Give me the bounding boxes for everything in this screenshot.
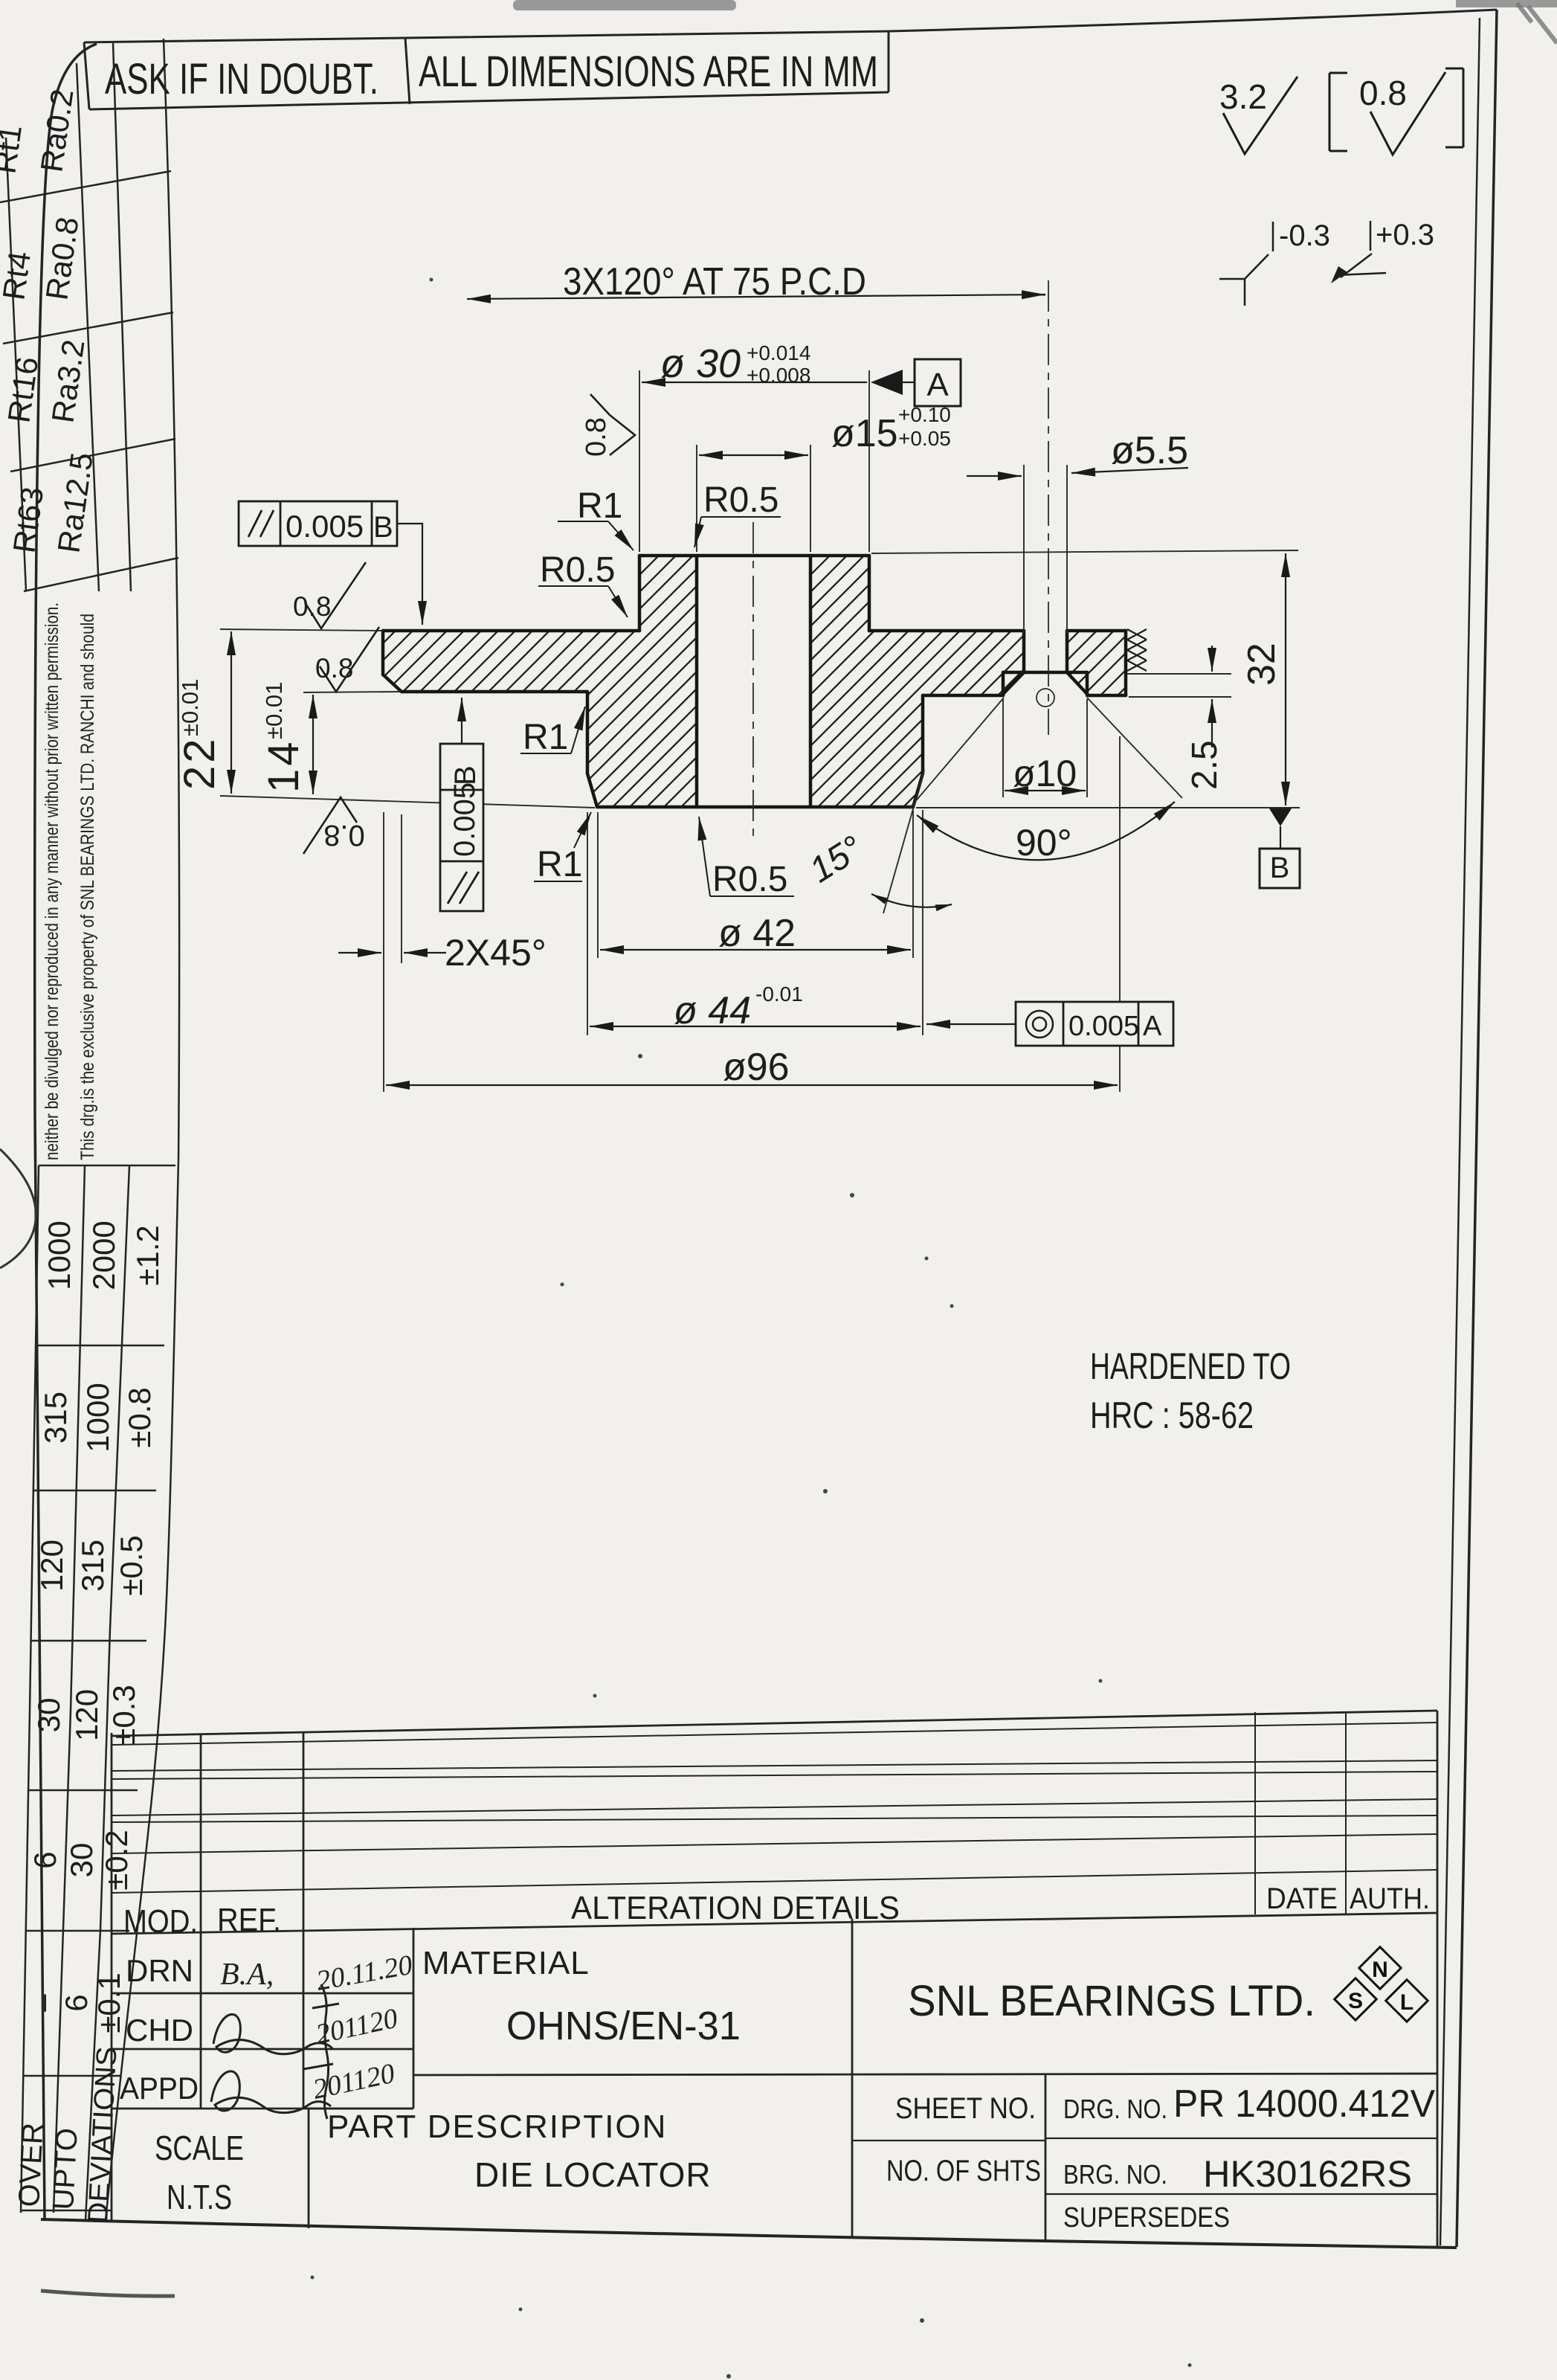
svg-text:B.A,: B.A, xyxy=(220,1958,274,1992)
svg-text:–: – xyxy=(25,1994,59,2012)
svg-text:ø96: ø96 xyxy=(723,1046,790,1089)
svg-text:B: B xyxy=(373,511,393,544)
svg-text:L: L xyxy=(1400,1990,1413,2015)
svg-text:3X120° AT 75 P.C.D: 3X120° AT 75 P.C.D xyxy=(563,260,866,303)
svg-text:ø10: ø10 xyxy=(1013,753,1077,794)
svg-text:SCALE: SCALE xyxy=(155,2129,244,2167)
svg-text:R0.5: R0.5 xyxy=(703,480,778,520)
svg-text:0.8: 0.8 xyxy=(293,591,331,622)
svg-text:DRN: DRN xyxy=(126,1953,193,1988)
svg-text:±0.8: ±0.8 xyxy=(122,1387,157,1447)
svg-text:AUTH.: AUTH. xyxy=(1350,1882,1430,1915)
svg-text:0.005: 0.005 xyxy=(448,782,481,857)
svg-text:R1: R1 xyxy=(577,486,622,526)
svg-text:1000: 1000 xyxy=(80,1383,115,1452)
svg-text:neither be divulged nor reprod: neither be divulged nor reproduced in an… xyxy=(42,602,62,1160)
svg-text:90°: 90° xyxy=(1016,822,1072,863)
svg-text:315: 315 xyxy=(75,1540,110,1592)
svg-text:6: 6 xyxy=(28,1851,62,1868)
svg-text:±0.2: ±0.2 xyxy=(99,1830,134,1890)
svg-text:ALTERATION DETAILS: ALTERATION DETAILS xyxy=(571,1890,900,1926)
svg-text:ø5.5: ø5.5 xyxy=(1111,429,1188,472)
svg-text:PART DESCRIPTION: PART DESCRIPTION xyxy=(327,2109,667,2145)
svg-text:120: 120 xyxy=(34,1540,69,1592)
svg-text:SNL BEARINGS LTD.: SNL BEARINGS LTD. xyxy=(908,1977,1315,2025)
svg-text:3.2: 3.2 xyxy=(1219,77,1267,116)
svg-text:OVER: OVER xyxy=(13,2122,50,2208)
svg-text:R1: R1 xyxy=(537,845,582,884)
svg-text:2.5: 2.5 xyxy=(1185,740,1225,790)
svg-text:6: 6 xyxy=(59,1994,94,2011)
svg-text:0.005: 0.005 xyxy=(286,509,364,544)
svg-text:14: 14 xyxy=(259,739,308,793)
svg-text:R1: R1 xyxy=(523,718,568,757)
svg-text:0.8: 0.8 xyxy=(1359,74,1407,112)
svg-text:DATE: DATE xyxy=(1266,1882,1338,1915)
svg-text:±0.1: ±0.1 xyxy=(91,1972,126,2033)
svg-text:+0.3: +0.3 xyxy=(1376,219,1434,251)
svg-text:±1.2: ±1.2 xyxy=(130,1225,165,1285)
svg-text:30: 30 xyxy=(64,1843,99,1878)
svg-text:HRC : 58-62: HRC : 58-62 xyxy=(1090,1395,1254,1436)
svg-text:0.8: 0.8 xyxy=(315,653,353,684)
svg-text:2000: 2000 xyxy=(86,1220,121,1290)
svg-text:315: 315 xyxy=(38,1392,73,1444)
svg-text:S: S xyxy=(1348,1989,1363,2013)
svg-text:ø 30: ø 30 xyxy=(660,341,741,386)
svg-text:±0.5: ±0.5 xyxy=(114,1535,149,1595)
svg-text:PR 14000.412V: PR 14000.412V xyxy=(1173,2082,1435,2126)
svg-text:HK30162RS: HK30162RS xyxy=(1203,2153,1412,2195)
svg-text:±0.01: ±0.01 xyxy=(261,682,287,739)
svg-text:120: 120 xyxy=(69,1689,104,1741)
svg-text:OHNS/EN-31: OHNS/EN-31 xyxy=(506,2004,741,2048)
svg-text:-0.01: -0.01 xyxy=(755,982,803,1006)
svg-text:30: 30 xyxy=(31,1698,66,1733)
svg-text:-0.3: -0.3 xyxy=(1279,219,1330,252)
svg-text:SUPERSEDES: SUPERSEDES xyxy=(1063,2202,1230,2233)
svg-text:R0.5: R0.5 xyxy=(540,550,615,590)
svg-text:+0.10: +0.10 xyxy=(898,403,951,426)
svg-text:0.005: 0.005 xyxy=(1068,1011,1139,1042)
svg-text:SHEET NO.: SHEET NO. xyxy=(895,2092,1036,2125)
svg-text:APPD: APPD xyxy=(120,2071,199,2106)
svg-text:CHD: CHD xyxy=(126,2013,193,2048)
svg-text:1000: 1000 xyxy=(42,1220,77,1290)
svg-text:ø15: ø15 xyxy=(831,412,898,455)
svg-text:N.T.S: N.T.S xyxy=(167,2178,232,2216)
svg-text:A: A xyxy=(926,367,949,403)
svg-text:+0.008: +0.008 xyxy=(747,364,810,387)
svg-text:+0.05: +0.05 xyxy=(898,427,951,450)
svg-text:+0.014: +0.014 xyxy=(747,341,810,364)
svg-text:ALL DIMENSIONS ARE IN MM: ALL DIMENSIONS ARE IN MM xyxy=(419,48,878,96)
svg-text:ø 42: ø 42 xyxy=(718,912,796,955)
svg-text:UPTO: UPTO xyxy=(47,2127,84,2211)
svg-text:32: 32 xyxy=(1240,643,1283,686)
svg-text:2X45°: 2X45° xyxy=(445,932,547,974)
svg-text:BRG. NO.: BRG. NO. xyxy=(1063,2159,1167,2190)
svg-text:ASK IF IN DOUBT.: ASK IF IN DOUBT. xyxy=(105,55,378,103)
svg-text:This drg.is the exclusive prop: This drg.is the exclusive property of SN… xyxy=(77,614,98,1160)
svg-text:DIE LOCATOR: DIE LOCATOR xyxy=(474,2155,712,2194)
svg-text:A: A xyxy=(1143,1011,1162,1042)
svg-text:B: B xyxy=(449,765,482,785)
svg-text:0.8: 0.8 xyxy=(323,819,365,852)
svg-text:0.8: 0.8 xyxy=(581,417,612,457)
svg-text:22: 22 xyxy=(175,736,224,790)
svg-text:HARDENED TO: HARDENED TO xyxy=(1090,1345,1291,1387)
svg-text:MOD.: MOD. xyxy=(123,1903,198,1940)
svg-text:MATERIAL: MATERIAL xyxy=(422,1945,590,1981)
svg-text:N: N xyxy=(1372,1958,1388,1982)
svg-text:NO. OF SHTS: NO. OF SHTS xyxy=(886,2155,1041,2187)
svg-text:±0.01: ±0.01 xyxy=(177,679,203,736)
svg-text:DRG. NO.: DRG. NO. xyxy=(1063,2094,1167,2124)
svg-text:R0.5: R0.5 xyxy=(712,860,787,899)
svg-text:REF.: REF. xyxy=(217,1902,281,1938)
svg-text:B: B xyxy=(1270,852,1290,884)
svg-text:ø 44: ø 44 xyxy=(674,989,751,1032)
